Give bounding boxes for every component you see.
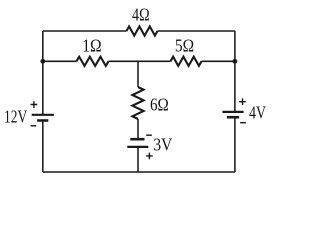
wire: right rail upper (top to 4V battery)	[234, 31, 236, 112]
wire: left rail upper (top to 12V battery)	[42, 31, 44, 115]
wire: middle branch from 3V battery to bottom	[137, 147, 139, 172]
label minus sign of 4V	[240, 122, 246, 124]
battery 12V short plate (-)	[37, 119, 48, 122]
battery 12V long plate (+)	[32, 114, 54, 116]
svg-text:6Ω: 6Ω	[150, 95, 169, 115]
resistor R 1ohm zigzag	[77, 57, 109, 66]
svg-text:4V: 4V	[249, 103, 266, 123]
node junction dot right	[233, 59, 238, 64]
svg-text:12V: 12V	[4, 107, 27, 127]
label plus sign of 12V	[31, 101, 38, 108]
battery 3V long plate (+) bottom	[127, 146, 148, 148]
svg-text:5Ω: 5Ω	[175, 35, 194, 55]
label plus sign of 4V	[239, 98, 246, 105]
label minus sign of 3V	[146, 134, 152, 136]
wire: left rail lower (12V battery to bottom)	[42, 121, 44, 173]
wire: middle branch from 6ohm to 3V battery	[137, 119, 139, 139]
label minus sign of 12V	[31, 125, 37, 127]
resistor R 5ohm zigzag	[171, 57, 202, 66]
label plus sign of 3V	[146, 153, 153, 160]
wire: second row, right of 5ohm	[202, 60, 235, 62]
wire: second row, left of 1ohm	[43, 60, 77, 62]
wire: second row, between 1ohm and 5ohm	[109, 60, 171, 62]
battery 4V short plate (-)	[227, 116, 239, 119]
wire: bottom wire	[43, 171, 235, 173]
battery 3V short plate (-) top	[130, 138, 144, 141]
svg-text:3V: 3V	[153, 134, 172, 154]
wire: top wire left segment	[43, 30, 127, 32]
svg-text:1Ω: 1Ω	[82, 35, 101, 55]
wire: top wire right segment	[158, 30, 235, 32]
wire: middle branch from second row to 6ohm	[137, 61, 139, 87]
resistor R 4ohm zigzag	[127, 26, 158, 35]
resistor R 6ohm vertical zigzag	[132, 87, 143, 119]
wire: right rail lower (4V battery to bottom)	[234, 117, 236, 172]
battery 4V long plate (+)	[222, 111, 243, 113]
svg-text:4Ω: 4Ω	[132, 4, 150, 24]
node junction dot left	[40, 59, 45, 64]
